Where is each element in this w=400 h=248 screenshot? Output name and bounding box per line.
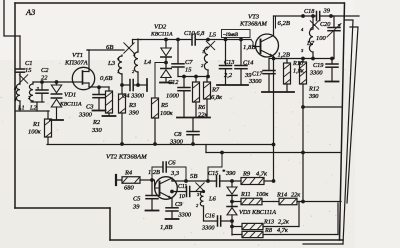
capacitor C19 — [331, 59, 333, 65]
node C19 top — [330, 57, 334, 61]
varactor VD2 upper diode — [165, 40, 167, 49]
bar under C13/C14 — [217, 84, 248, 86]
frame bottom-left step — [15, 207, 110, 209]
svg-text:4,7к: 4,7к — [277, 227, 288, 234]
svg-text:1000: 1000 — [166, 93, 180, 100]
C19 bottom bar — [326, 81, 339, 83]
svg-text:С19: С19 — [313, 62, 324, 69]
bar under C12/R6/R7 — [177, 117, 210, 119]
resistor R5 — [152, 98, 159, 118]
node at C2 top — [40, 80, 44, 84]
wire x303 rail B to R14 — [302, 153, 304, 202]
svg-text:22к: 22к — [291, 192, 300, 199]
svg-text:390: 390 — [308, 93, 319, 100]
varactor VD1 lower diode — [51, 97, 61, 99]
wire antenna feed from top-left — [4, 0, 20, 36]
coil L5 — [204, 47, 208, 70]
svg-text:С5: С5 — [133, 196, 141, 203]
node L5 top — [206, 38, 210, 42]
frame bottom — [110, 239, 343, 241]
capacitor C1 — [19, 36, 21, 69]
resistor R2 — [99, 86, 109, 88]
wire VT2 collector bus y181 — [172, 180, 217, 182]
node rail A x273 — [272, 143, 276, 147]
svg-text:22: 22 — [41, 75, 48, 82]
svg-text:R8: R8 — [264, 227, 273, 234]
wire supply step from rail B — [208, 153, 222, 182]
capacitor C17 — [268, 59, 270, 71]
svg-text:1,8В: 1,8В — [243, 44, 255, 51]
svg-text:С15: С15 — [208, 170, 218, 177]
transistor VT2 circle — [155, 177, 178, 200]
wire R13 riser — [298, 202, 300, 227]
VD1 bottom bar — [50, 119, 63, 121]
wire gate bus y82 — [33, 81, 73, 83]
capacitor C14 — [240, 40, 242, 66]
svg-text:КВС111А: КВС111А — [150, 32, 173, 38]
svg-text:VT2 КТ368АМ: VT2 КТ368АМ — [106, 154, 147, 161]
wire top bus y39 — [140, 39, 192, 41]
transistor VT1 circle — [72, 67, 94, 89]
resistor R3 — [121, 85, 123, 94]
svg-text:С12: С12 — [168, 79, 178, 86]
node R9 right — [272, 179, 276, 183]
svg-text:VD2: VD2 — [154, 24, 167, 31]
svg-text:1,2В: 1,2В — [148, 169, 160, 176]
capacitor C8 — [192, 118, 194, 132]
svg-text:С9: С9 — [175, 201, 183, 208]
node C18 left — [301, 14, 305, 18]
svg-text:С13: С13 — [224, 59, 234, 66]
capacitor C7 — [177, 40, 179, 64]
svg-text:R4: R4 — [124, 170, 133, 177]
svg-text:15: 15 — [25, 67, 32, 74]
svg-text:R1: R1 — [32, 121, 40, 128]
resistor R7 — [206, 77, 208, 83]
VD2 bottom bar — [160, 82, 172, 84]
capacitor C13 — [225, 40, 227, 66]
rail B y152.5 — [206, 152, 340, 154]
wire drain bus to L3 — [87, 49, 124, 51]
svg-text:5В: 5В — [190, 173, 197, 180]
svg-text:R2: R2 — [92, 119, 101, 126]
resistor R8 — [232, 234, 242, 236]
capacitor C5 — [151, 180, 153, 196]
svg-text:1: 1 — [202, 49, 204, 54]
VT3 emitter with arrow — [261, 50, 274, 57]
node L5 bottom — [206, 75, 210, 79]
svg-text:330: 330 — [91, 127, 102, 134]
node rail B x222 — [220, 151, 224, 155]
R2 bottom bar — [103, 115, 116, 117]
page edge line inner — [347, 27, 358, 203]
svg-text:R7: R7 — [211, 87, 220, 94]
node L4 bottom — [136, 83, 140, 87]
node R5 on rail A — [153, 142, 157, 146]
svg-text:4,7к: 4,7к — [256, 171, 268, 178]
rail jog — [205, 145, 207, 153]
node L7 bottom — [311, 57, 315, 61]
resistor R4 series — [117, 179, 122, 181]
svg-text:С11: С11 — [178, 184, 187, 190]
svg-text:R11: R11 — [240, 191, 251, 198]
svg-text:R12: R12 — [308, 86, 319, 93]
svg-text:КП307А: КП307А — [64, 60, 88, 67]
node C7 top — [176, 38, 180, 42]
svg-text:3300: 3300 — [178, 212, 192, 219]
svg-text:100к: 100к — [256, 191, 268, 198]
node R6 top — [194, 75, 198, 79]
coil L6 — [198, 191, 204, 193]
resistor R6 — [195, 77, 197, 83]
node at VD1 top — [55, 80, 59, 84]
node supply drop — [206, 179, 210, 183]
svg-text:R9: R9 — [242, 171, 251, 178]
node VT1 source — [97, 85, 101, 89]
svg-text:С14: С14 — [243, 60, 253, 67]
varactor VD2 lower diode — [165, 57, 167, 69]
svg-text:~10мкВ: ~10мкВ — [223, 33, 238, 38]
VT3 collector — [261, 36, 274, 43]
capacitor C2 — [41, 82, 43, 90]
svg-text:А3: А3 — [25, 8, 35, 17]
capacitor C3 — [98, 87, 100, 95]
svg-text:2,2: 2,2 — [224, 72, 233, 79]
wire VT2 emitter down — [171, 199, 173, 208]
VT1 FET internals — [73, 81, 83, 83]
resistor R14 — [274, 201, 280, 203]
svg-text:100к: 100к — [160, 110, 174, 117]
node VD3 mid — [230, 200, 234, 204]
wire VT3 emitter line down — [273, 57, 275, 182]
svg-text:R6: R6 — [197, 104, 206, 111]
capacitor C15 series — [216, 176, 218, 187]
node R12 top — [301, 57, 305, 61]
svg-text:100: 100 — [316, 35, 326, 42]
capacitor C9 — [171, 207, 173, 209]
bar under C17/R10 — [262, 91, 294, 93]
capacitor C11 — [172, 191, 187, 193]
node rail B x303 — [301, 151, 305, 155]
node R12 bottom rail — [301, 105, 305, 109]
tap mark at L5 top — [206, 41, 214, 49]
node C6 drop — [184, 179, 188, 183]
svg-text:КВС111А: КВС111А — [59, 102, 82, 108]
wire y221 L6 bottom to VD3 — [204, 220, 218, 222]
svg-text:1: 1 — [117, 69, 119, 74]
node C18 right / C20 top — [329, 14, 333, 18]
capacitor C4 — [122, 84, 130, 86]
C3 bottom bar — [93, 110, 106, 112]
svg-text:L4: L4 — [143, 59, 152, 66]
node VD3 top — [230, 179, 234, 183]
svg-text:6,2В: 6,2В — [278, 20, 290, 27]
svg-text:С2: С2 — [41, 67, 49, 74]
node R3 on rail A — [120, 142, 124, 146]
svg-text:С10 6,8: С10 6,8 — [184, 30, 205, 37]
wire base jog — [152, 180, 159, 188]
resistor R1 — [47, 111, 49, 119]
VT2 base bar — [159, 182, 161, 196]
svg-text:1,8В: 1,8В — [160, 224, 172, 231]
wire out right from bus — [344, 15, 359, 17]
capacitor C6 feedback — [152, 167, 163, 180]
node C8 on rail A — [191, 142, 195, 146]
svg-text:L3: L3 — [107, 60, 116, 67]
wire VT1 source — [88, 83, 90, 87]
node VD2 top — [164, 38, 168, 42]
svg-text:С16: С16 — [205, 214, 215, 220]
svg-text:VD1: VD1 — [64, 92, 76, 99]
svg-text:3300: 3300 — [248, 78, 262, 85]
svg-text:L5: L5 — [208, 32, 217, 39]
node VT2 base — [150, 178, 154, 182]
node C12 top — [182, 75, 186, 79]
C9 bottom bar — [166, 218, 179, 220]
svg-text:1: 1 — [15, 97, 17, 102]
wire collector bus y16 — [274, 15, 317, 17]
svg-text:6В: 6В — [106, 44, 113, 51]
resistor R11 — [232, 201, 241, 203]
svg-text:390: 390 — [225, 170, 236, 177]
VT3 base bar — [260, 40, 262, 54]
node R14 wire x303 — [301, 200, 305, 204]
svg-text:390: 390 — [128, 110, 139, 117]
resistor R12 — [302, 59, 304, 63]
node VD3 at y221 — [230, 219, 234, 223]
frame A3 block border top — [15, 2, 344, 4]
node VD2 mid — [164, 61, 168, 65]
coil L1 — [16, 84, 20, 101]
tap mark at L6 top — [196, 183, 204, 191]
varactor VD3 lower diode — [231, 196, 233, 207]
capacitor C20 trimmer — [333, 16, 335, 28]
svg-text:КТ368АМ: КТ368АМ — [239, 21, 267, 28]
svg-text:С6: С6 — [168, 160, 176, 167]
svg-text:С18: С18 — [304, 8, 315, 15]
node C13 top — [224, 38, 228, 42]
C5 bottom bar — [146, 210, 159, 212]
svg-text:2,2к: 2,2к — [278, 219, 289, 226]
capacitor C12 — [183, 77, 185, 88]
svg-text:С7: С7 — [185, 59, 193, 66]
coil L4 — [137, 39, 139, 52]
svg-text:680: 680 — [124, 185, 134, 192]
wire y58 tank bottom — [274, 58, 335, 60]
coil L2 — [29, 84, 33, 101]
transistor VT3 circle — [256, 34, 279, 57]
wire VT1 drain riser — [88, 50, 90, 72]
resistor R9 series — [241, 178, 264, 185]
tap mark at L3 top — [124, 43, 134, 53]
svg-text:VT3: VT3 — [248, 14, 260, 21]
node emitter/y58 — [272, 57, 276, 61]
wire AGC row y76.5 — [178, 76, 208, 78]
tap mark at L7 — [310, 21, 318, 29]
page edge line outer — [343, 20, 353, 244]
wire rail y107 to frame — [303, 106, 341, 108]
svg-text:39: 39 — [323, 8, 331, 15]
capacitor C10 series — [191, 34, 193, 45]
page corner shadow bottom — [303, 243, 343, 245]
wire bus to VT3 base — [251, 40, 257, 47]
svg-text:R13: R13 — [263, 219, 274, 226]
svg-text:С8: С8 — [174, 131, 182, 138]
node VT2 emitter branch — [170, 190, 174, 194]
svg-text:R5: R5 — [160, 102, 169, 109]
coil L3 — [121, 55, 123, 56]
svg-text:3300: 3300 — [78, 112, 93, 119]
VT2 emitter with arrow — [160, 192, 173, 199]
svg-text:100к: 100к — [28, 129, 42, 136]
svg-text:10: 10 — [179, 194, 185, 200]
varactor VD3 upper diode — [231, 181, 233, 187]
capacitor C18 series — [316, 12, 318, 21]
varactor VD1 upper diode — [56, 82, 58, 85]
wire VD2 mid to R5 — [155, 63, 166, 99]
svg-text:VD3 КВС111А: VD3 КВС111А — [239, 209, 276, 216]
wire L2/C2 bottom bar — [31, 101, 44, 103]
wire tank top riser to bus — [132, 40, 134, 44]
wire input section common bar — [16, 110, 49, 112]
svg-text:L7: L7 — [306, 40, 315, 47]
svg-text:3,3: 3,3 — [170, 170, 179, 177]
svg-text:39: 39 — [132, 204, 140, 211]
tap mark on C1-L1 wire — [19, 75, 27, 83]
node L7 top — [311, 14, 315, 18]
svg-text:С20: С20 — [320, 21, 331, 28]
frame right side — [340, 3, 345, 240]
resistor R13 — [232, 226, 242, 228]
VT2 collector — [160, 178, 173, 184]
node L3 bottom — [120, 83, 124, 87]
voltage mark 6,2V — [275, 17, 277, 28]
resistor R10 — [274, 58, 288, 60]
svg-text:С17: С17 — [252, 71, 263, 78]
coil L7 — [312, 16, 314, 29]
svg-text:R14: R14 — [276, 192, 287, 199]
svg-text:0,6В: 0,6В — [100, 75, 112, 82]
frame left side — [14, 3, 16, 208]
svg-text:R3: R3 — [128, 102, 136, 109]
node VD3 at R13 — [230, 225, 234, 229]
svg-text:6,8к: 6,8к — [211, 94, 223, 101]
svg-text:3300: 3300 — [309, 70, 323, 77]
wire R12 node down to rail B — [302, 107, 304, 153]
input terminal — [115, 175, 117, 185]
svg-text:С3: С3 — [86, 104, 94, 111]
wire R8 riser at frame — [337, 203, 339, 235]
svg-text:L6: L6 — [208, 196, 217, 203]
signal level box ~10mkV — [222, 30, 251, 38]
C4 right end bar — [146, 79, 148, 91]
svg-text:3300: 3300 — [201, 225, 215, 232]
svg-text:VT1: VT1 — [72, 52, 83, 59]
svg-text:1,8к: 1,8к — [293, 68, 304, 75]
svg-text:15: 15 — [185, 67, 192, 74]
svg-text:1,2В: 1,2В — [278, 52, 290, 59]
node C14 top — [239, 38, 243, 42]
rail A y144 — [47, 144, 274, 146]
svg-text:С1: С1 — [25, 60, 33, 67]
